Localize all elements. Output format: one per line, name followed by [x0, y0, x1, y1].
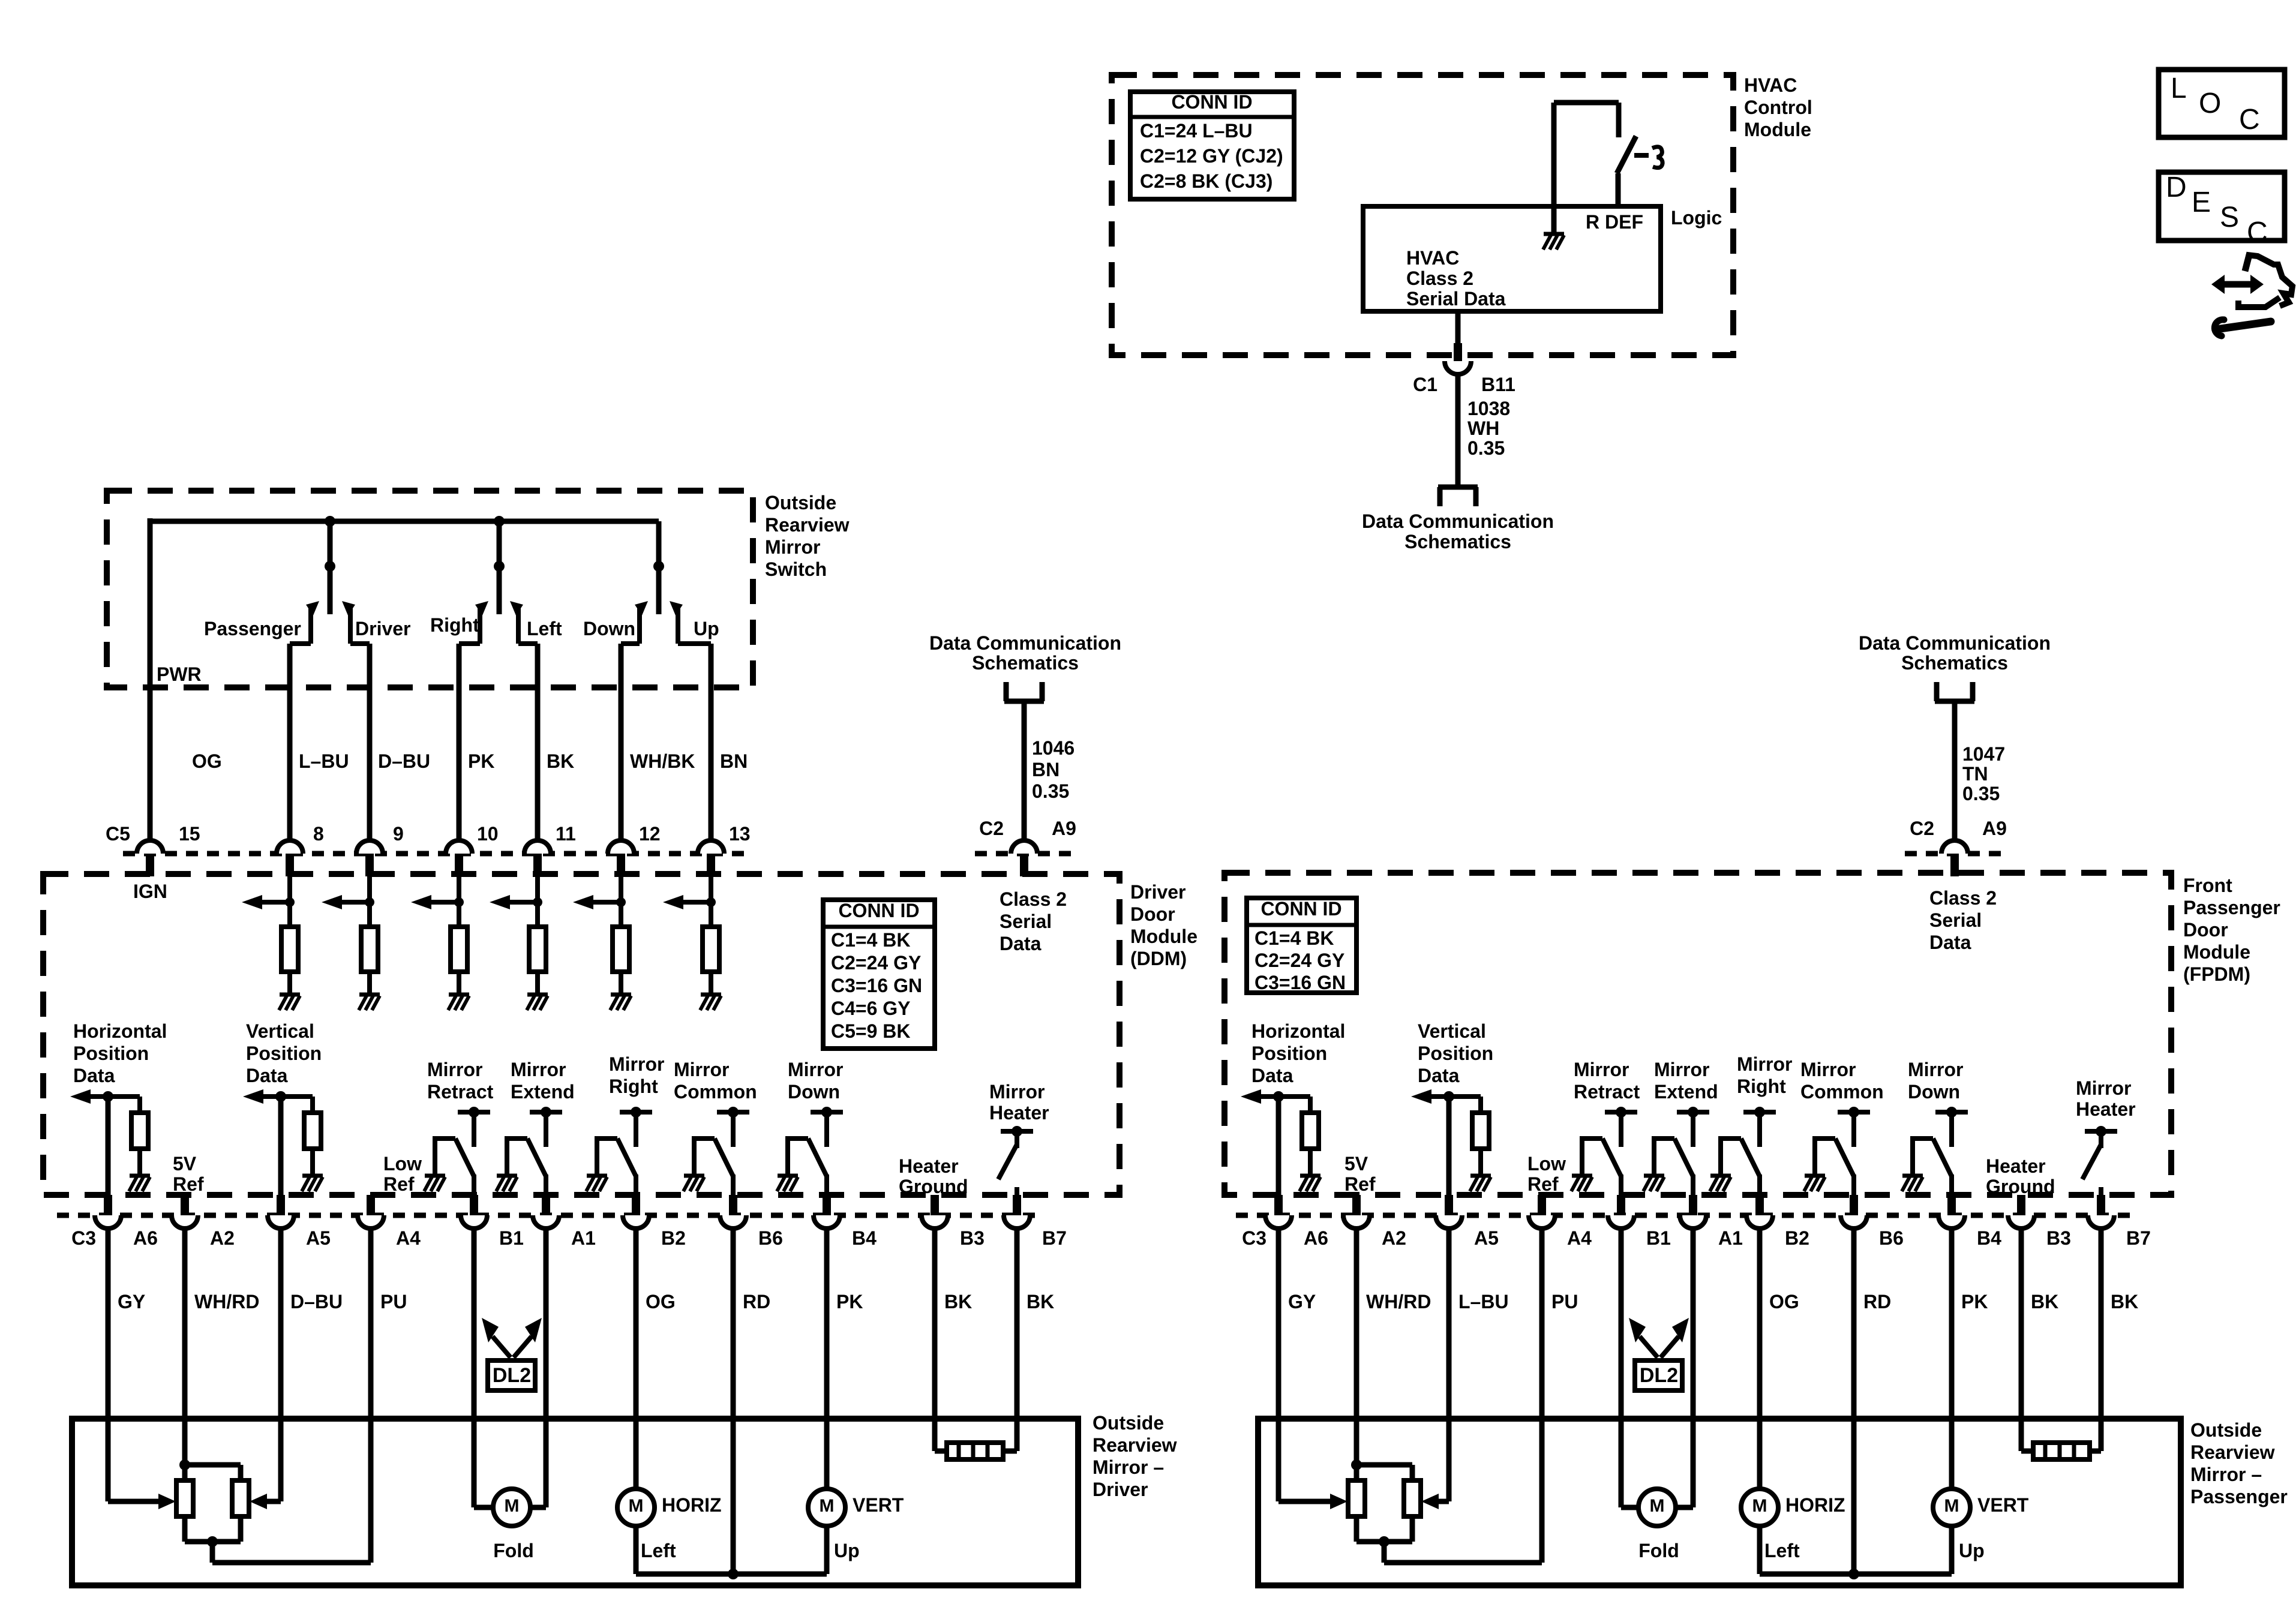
svg-text:S: S: [2220, 202, 2239, 233]
svg-text:Door: Door: [1130, 903, 1175, 925]
svg-text:8: 8: [313, 823, 324, 845]
svg-text:Driver: Driver: [1093, 1479, 1148, 1500]
svg-text:1038: 1038: [1467, 398, 1510, 419]
svg-text:Vertical: Vertical: [1418, 1020, 1486, 1042]
svg-text:VERT: VERT: [853, 1494, 904, 1516]
svg-text:Mirror –: Mirror –: [2190, 1464, 2262, 1485]
svg-text:Serial Data: Serial Data: [1406, 288, 1506, 310]
svg-text:Ref: Ref: [1527, 1173, 1559, 1195]
svg-text:BN: BN: [720, 750, 748, 772]
svg-text:13: 13: [729, 823, 751, 845]
svg-text:BK: BK: [547, 750, 574, 772]
svg-text:Mirror: Mirror: [674, 1059, 729, 1080]
svg-text:M: M: [1944, 1496, 1959, 1516]
svg-text:IGN: IGN: [133, 881, 167, 902]
svg-text:Retract: Retract: [1574, 1081, 1640, 1103]
svg-text:5V: 5V: [173, 1153, 197, 1175]
svg-text:Mirror: Mirror: [989, 1081, 1045, 1103]
svg-text:5V: 5V: [1344, 1153, 1368, 1175]
svg-text:Data Communication: Data Communication: [929, 632, 1121, 654]
svg-text:12: 12: [639, 823, 661, 845]
svg-text:C3=16 GN: C3=16 GN: [1254, 972, 1346, 993]
svg-text:Ref: Ref: [173, 1173, 204, 1195]
svg-text:D–BU: D–BU: [290, 1291, 343, 1312]
svg-text:B2: B2: [1785, 1227, 1809, 1249]
svg-text:Control: Control: [1744, 97, 1812, 118]
svg-text:Mirror: Mirror: [1574, 1059, 1629, 1080]
svg-text:Data: Data: [1000, 933, 1042, 954]
svg-text:Ground: Ground: [1986, 1176, 2055, 1197]
svg-text:Down: Down: [788, 1081, 840, 1103]
svg-text:Right: Right: [609, 1076, 658, 1097]
svg-text:Class 2: Class 2: [1929, 887, 1997, 909]
svg-text:C2: C2: [1910, 818, 1934, 839]
svg-text:BK: BK: [2111, 1291, 2138, 1312]
svg-text:10: 10: [477, 823, 499, 845]
svg-text:Down: Down: [1908, 1081, 1960, 1103]
svg-text:C1=4 BK: C1=4 BK: [1254, 927, 1334, 949]
svg-text:WH/BK: WH/BK: [630, 750, 695, 772]
svg-text:Data: Data: [1418, 1065, 1460, 1086]
svg-text:Data: Data: [1929, 932, 1971, 953]
svg-text:C4=6 GY: C4=6 GY: [831, 998, 911, 1019]
svg-text:Schematics: Schematics: [972, 652, 1079, 674]
svg-text:A9: A9: [1982, 818, 2007, 839]
svg-text:Logic: Logic: [1671, 207, 1722, 229]
svg-text:WH: WH: [1467, 417, 1499, 439]
svg-text:Up: Up: [1959, 1540, 1985, 1561]
svg-text:L: L: [2171, 73, 2187, 104]
svg-text:Fold: Fold: [493, 1540, 534, 1561]
svg-text:D–BU: D–BU: [378, 750, 430, 772]
svg-text:Vertical: Vertical: [246, 1020, 314, 1042]
svg-text:C2=8 BK (CJ3): C2=8 BK (CJ3): [1140, 170, 1272, 192]
svg-text:Mirror: Mirror: [1737, 1053, 1792, 1075]
svg-text:C1=4 BK: C1=4 BK: [831, 929, 911, 951]
svg-text:C2: C2: [979, 818, 1004, 839]
svg-text:C2=24 GY: C2=24 GY: [831, 952, 921, 974]
svg-text:B7: B7: [1042, 1227, 1067, 1249]
svg-text:0.35: 0.35: [1032, 780, 1069, 802]
svg-text:Position: Position: [1418, 1043, 1493, 1064]
svg-text:Module: Module: [2183, 941, 2250, 963]
svg-text:C3: C3: [71, 1227, 96, 1249]
svg-text:M: M: [1650, 1496, 1665, 1516]
svg-text:Rearview: Rearview: [1093, 1434, 1177, 1456]
svg-text:Horizontal: Horizontal: [73, 1020, 167, 1042]
svg-text:Passenger: Passenger: [204, 618, 301, 639]
svg-text:E: E: [2192, 187, 2211, 218]
svg-text:Data: Data: [73, 1065, 115, 1086]
svg-text:Position: Position: [1251, 1043, 1327, 1064]
svg-text:M: M: [820, 1496, 835, 1516]
svg-text:15: 15: [179, 823, 200, 845]
svg-text:VERT: VERT: [1977, 1494, 2029, 1516]
svg-text:Ref: Ref: [383, 1173, 415, 1195]
svg-text:RD: RD: [1863, 1291, 1891, 1312]
svg-text:Left: Left: [1764, 1540, 1800, 1561]
svg-text:BK: BK: [2031, 1291, 2058, 1312]
svg-text:M: M: [505, 1496, 520, 1516]
svg-text:M: M: [629, 1496, 644, 1516]
svg-text:C: C: [2239, 104, 2260, 136]
svg-text:A9: A9: [1052, 818, 1076, 839]
svg-text:Position: Position: [246, 1043, 322, 1064]
svg-text:Data: Data: [1251, 1065, 1293, 1086]
svg-text:Mirror: Mirror: [427, 1059, 482, 1080]
svg-text:Down: Down: [583, 618, 635, 639]
svg-text:1047: 1047: [1962, 743, 2005, 765]
svg-text:Switch: Switch: [765, 558, 827, 580]
svg-text:Heater: Heater: [2076, 1098, 2136, 1120]
svg-text:L–BU: L–BU: [1458, 1291, 1509, 1312]
svg-text:CONN ID: CONN ID: [838, 900, 919, 921]
svg-text:A6: A6: [1304, 1227, 1328, 1249]
svg-text:CONN ID: CONN ID: [1260, 898, 1341, 920]
svg-text:BK: BK: [1027, 1291, 1054, 1312]
svg-text:HVAC: HVAC: [1744, 74, 1797, 96]
svg-text:Serial: Serial: [1000, 911, 1052, 932]
svg-text:Rearview: Rearview: [765, 514, 850, 536]
svg-text:B2: B2: [661, 1227, 686, 1249]
svg-text:A1: A1: [1718, 1227, 1743, 1249]
svg-text:C5: C5: [106, 823, 130, 845]
svg-text:Mirror: Mirror: [2076, 1077, 2131, 1099]
svg-text:PU: PU: [380, 1291, 407, 1312]
svg-text:OG: OG: [1769, 1291, 1799, 1312]
svg-text:A5: A5: [1474, 1227, 1499, 1249]
svg-text:Low: Low: [383, 1153, 422, 1175]
svg-text:Common: Common: [674, 1081, 757, 1103]
svg-text:CONN ID: CONN ID: [1171, 91, 1252, 113]
svg-text:0.35: 0.35: [1467, 437, 1505, 459]
svg-text:C3: C3: [1242, 1227, 1266, 1249]
svg-text:Data: Data: [246, 1065, 288, 1086]
svg-text:0.35: 0.35: [1962, 783, 2000, 804]
svg-text:HORIZ: HORIZ: [662, 1494, 722, 1516]
svg-text:Door: Door: [2183, 919, 2228, 941]
svg-text:WH/RD: WH/RD: [194, 1291, 259, 1312]
svg-text:BN: BN: [1032, 759, 1060, 780]
svg-text:GY: GY: [118, 1291, 145, 1312]
svg-text:RD: RD: [743, 1291, 770, 1312]
svg-text:Ref: Ref: [1344, 1173, 1376, 1195]
svg-text:Rearview: Rearview: [2190, 1441, 2275, 1463]
svg-text:Heater: Heater: [989, 1102, 1049, 1124]
svg-text:Extend: Extend: [1654, 1081, 1718, 1103]
svg-text:11: 11: [556, 823, 576, 845]
svg-text:Retract: Retract: [427, 1081, 494, 1103]
svg-text:Right: Right: [1737, 1076, 1786, 1097]
svg-text:Ground: Ground: [899, 1176, 968, 1197]
svg-text:PK: PK: [836, 1291, 863, 1312]
svg-text:Serial: Serial: [1929, 909, 1982, 931]
svg-text:Mirror: Mirror: [511, 1059, 566, 1080]
svg-text:C3=16 GN: C3=16 GN: [831, 975, 922, 996]
svg-text:Fold: Fold: [1638, 1540, 1679, 1561]
svg-text:Driver: Driver: [1130, 881, 1186, 903]
svg-text:Mirror: Mirror: [765, 536, 820, 558]
svg-text:Mirror: Mirror: [788, 1059, 843, 1080]
svg-text:C5=9 BK: C5=9 BK: [831, 1020, 911, 1042]
svg-text:DL2: DL2: [1640, 1364, 1678, 1387]
svg-text:B1: B1: [1646, 1227, 1671, 1249]
svg-text:C1=24 L–BU: C1=24 L–BU: [1140, 120, 1253, 142]
svg-text:Mirror: Mirror: [1908, 1059, 1963, 1080]
svg-text:L–BU: L–BU: [299, 750, 349, 772]
svg-text:Left: Left: [527, 618, 562, 639]
svg-text:Low: Low: [1527, 1153, 1566, 1175]
svg-text:Module: Module: [1130, 926, 1197, 947]
svg-text:Driver: Driver: [355, 618, 411, 639]
svg-text:C1: C1: [1413, 374, 1437, 395]
svg-text:B3: B3: [2046, 1227, 2071, 1249]
svg-text:BK: BK: [944, 1291, 972, 1312]
svg-text:C2=24 GY: C2=24 GY: [1254, 950, 1344, 971]
svg-text:Extend: Extend: [511, 1081, 575, 1103]
svg-text:Schematics: Schematics: [1901, 652, 2008, 674]
svg-text:9: 9: [393, 823, 404, 845]
svg-text:B11: B11: [1481, 374, 1515, 395]
svg-text:PK: PK: [468, 750, 494, 772]
svg-text:TN: TN: [1962, 763, 1988, 785]
svg-text:1046: 1046: [1032, 737, 1075, 759]
svg-text:Data Communication: Data Communication: [1859, 632, 2051, 654]
svg-text:Outside: Outside: [765, 492, 836, 513]
svg-text:Passenger: Passenger: [2190, 1486, 2288, 1507]
svg-text:PWR: PWR: [157, 663, 202, 685]
svg-text:(DDM): (DDM): [1130, 948, 1187, 969]
svg-text:Class 2: Class 2: [1406, 268, 1473, 289]
svg-text:GY: GY: [1288, 1291, 1316, 1312]
svg-text:B7: B7: [2126, 1227, 2151, 1249]
svg-text:Outside: Outside: [2190, 1419, 2262, 1441]
svg-text:Horizontal: Horizontal: [1251, 1020, 1345, 1042]
svg-text:Up: Up: [694, 618, 719, 639]
svg-text:B1: B1: [499, 1227, 524, 1249]
svg-text:M: M: [1752, 1496, 1767, 1516]
svg-text:B4: B4: [1977, 1227, 2001, 1249]
svg-text:Mirror: Mirror: [609, 1053, 664, 1075]
svg-text:Mirror: Mirror: [1800, 1059, 1856, 1080]
svg-text:A1: A1: [571, 1227, 596, 1249]
svg-text:B3: B3: [960, 1227, 985, 1249]
svg-text:B4: B4: [852, 1227, 877, 1249]
svg-text:O: O: [2199, 88, 2221, 119]
svg-text:A2: A2: [1382, 1227, 1406, 1249]
svg-text:Left: Left: [641, 1540, 676, 1561]
svg-text:D: D: [2166, 172, 2187, 203]
svg-text:Data Communication: Data Communication: [1362, 510, 1554, 532]
svg-text:WH/RD: WH/RD: [1366, 1291, 1431, 1312]
svg-text:Heater: Heater: [1986, 1155, 2046, 1177]
svg-text:A5: A5: [306, 1227, 331, 1249]
svg-text:Common: Common: [1800, 1081, 1884, 1103]
svg-text:Right: Right: [430, 614, 479, 636]
svg-text:A4: A4: [396, 1227, 421, 1249]
svg-text:B6: B6: [1879, 1227, 1904, 1249]
svg-text:Mirror –: Mirror –: [1093, 1456, 1164, 1478]
svg-text:PK: PK: [1961, 1291, 1988, 1312]
svg-text:OG: OG: [646, 1291, 676, 1312]
svg-text:B6: B6: [758, 1227, 783, 1249]
svg-text:Outside: Outside: [1093, 1412, 1164, 1434]
svg-text:R DEF: R DEF: [1586, 211, 1643, 233]
svg-text:Front: Front: [2183, 875, 2232, 896]
svg-text:(FPDM): (FPDM): [2183, 963, 2250, 985]
svg-text:A4: A4: [1567, 1227, 1592, 1249]
svg-text:DL2: DL2: [493, 1364, 531, 1387]
svg-text:A2: A2: [210, 1227, 235, 1249]
svg-text:Module: Module: [1744, 119, 1811, 140]
svg-text:C2=12 GY (CJ2): C2=12 GY (CJ2): [1140, 145, 1283, 167]
svg-text:Up: Up: [834, 1540, 860, 1561]
svg-text:Position: Position: [73, 1043, 149, 1064]
svg-text:C: C: [2247, 217, 2268, 248]
svg-text:Heater: Heater: [899, 1155, 959, 1177]
svg-text:Class 2: Class 2: [1000, 888, 1067, 910]
svg-text:Mirror: Mirror: [1654, 1059, 1709, 1080]
svg-text:PU: PU: [1551, 1291, 1578, 1312]
svg-text:Passenger: Passenger: [2183, 897, 2280, 918]
svg-text:Schematics: Schematics: [1404, 531, 1511, 552]
svg-text:A6: A6: [133, 1227, 158, 1249]
svg-text:OG: OG: [192, 750, 222, 772]
svg-text:HVAC: HVAC: [1406, 247, 1459, 269]
svg-text:HORIZ: HORIZ: [1785, 1494, 1845, 1516]
